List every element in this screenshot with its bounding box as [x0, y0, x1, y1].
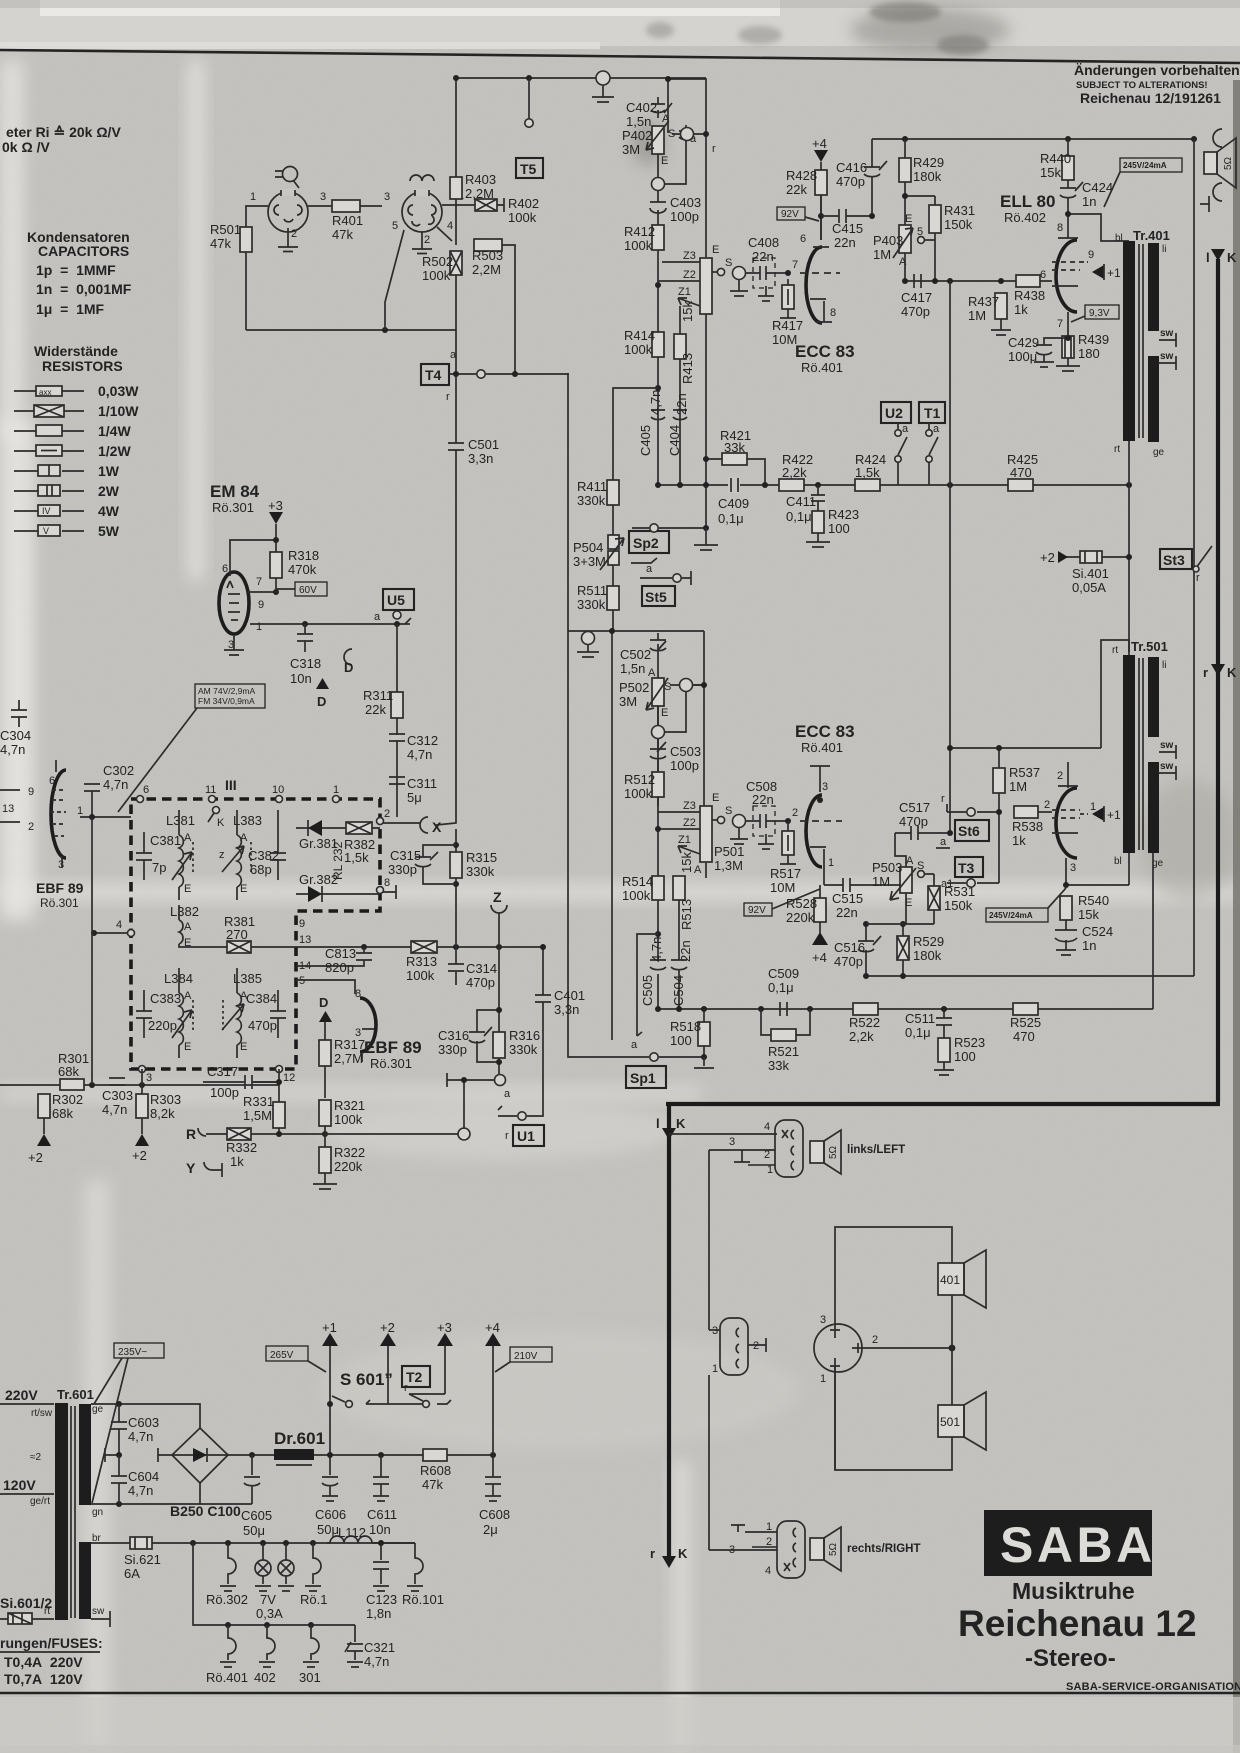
wire R411 top [613, 388, 658, 480]
svg-text:A: A [648, 667, 656, 679]
info box AM/FM [118, 684, 265, 812]
wire bracket a [637, 934, 658, 1036]
secondary bar lower [1148, 762, 1159, 853]
svg-text:EM 84: EM 84 [210, 482, 260, 501]
potentiometer P402 [646, 122, 668, 154]
wire R421 row [706, 459, 765, 485]
node 4 [94, 932, 127, 934]
capacitor C123 [373, 1543, 389, 1591]
svg-text:330k: 330k [509, 1042, 538, 1057]
svg-text:330p: 330p [388, 862, 417, 877]
svg-text:220k: 220k [786, 910, 815, 925]
svg-text:2: 2 [384, 808, 390, 820]
wire socket pin5 diagonal [385, 230, 404, 330]
svg-text:T2: T2 [406, 1369, 423, 1385]
wire x92 down [91, 817, 93, 1085]
connector Y [186, 1160, 222, 1177]
svg-text:100k: 100k [622, 888, 651, 903]
svg-text:1W: 1W [98, 463, 120, 479]
svg-text:rt: rt [1112, 645, 1118, 656]
svg-text:3M: 3M [622, 142, 640, 157]
wire R412 to switch area [657, 250, 659, 340]
wire gn row [91, 1482, 252, 1504]
speaker output top right [1200, 129, 1236, 212]
legend: resistor 4W [14, 503, 120, 519]
pentode ELL80b arc [1056, 788, 1077, 858]
trimmer cap second [679, 125, 693, 143]
svg-text:Dr.601: Dr.601 [274, 1429, 325, 1448]
svg-text:Reichenau 12/191261: Reichenau 12/191261 [1080, 90, 1221, 106]
svg-text:2: 2 [291, 228, 297, 240]
capacitor C302 [84, 784, 100, 817]
svg-text:FM 34V/0,9mA: FM 34V/0,9mA [198, 696, 255, 706]
svg-text:D: D [319, 995, 328, 1010]
svg-text:120V: 120V [3, 1477, 36, 1493]
wire row y976 [866, 975, 1194, 977]
svg-text:AM 74V/2,9mA: AM 74V/2,9mA [198, 686, 255, 696]
label box Sp2 [629, 531, 669, 553]
svg-text:C611: C611 [367, 1507, 397, 1522]
resistor R502 [450, 251, 462, 275]
svg-text:Rö.301: Rö.301 [40, 896, 79, 910]
svg-text:1: 1 [712, 1363, 718, 1375]
svg-text:C411: C411 [786, 494, 816, 509]
svg-text:P503: P503 [872, 860, 902, 875]
voltage box 235V~ [92, 1343, 164, 1503]
wire pin4 to junction [437, 227, 452, 241]
svg-text:r: r [446, 391, 450, 403]
chassis ground at socket Bu501 pin2 [278, 228, 298, 252]
svg-text:rechts/RIGHT: rechts/RIGHT [847, 1543, 921, 1555]
resistor R518 [698, 1022, 710, 1046]
capacitor C315 [415, 845, 456, 884]
svg-text:1n: 1n [1082, 938, 1096, 953]
svg-text:820p: 820p [325, 960, 354, 975]
supply arrow +1 [322, 1320, 338, 1458]
resistor R413 [674, 334, 686, 359]
svg-text:D: D [344, 660, 353, 675]
svg-text:Tr.501: Tr.501 [1131, 639, 1168, 654]
svg-text:+4: +4 [812, 950, 827, 965]
svg-text:ge/rt: ge/rt [30, 1496, 50, 1507]
svg-text:bl: bl [1114, 856, 1122, 867]
svg-text:links/LEFT: links/LEFT [847, 1144, 905, 1156]
svg-text:C383: C383 [150, 991, 181, 1006]
svg-text:470k: 470k [288, 562, 317, 577]
svg-text:III: III [225, 777, 237, 793]
svg-text:68k: 68k [58, 1064, 79, 1079]
svg-text:E: E [661, 155, 668, 167]
svg-text:1p = 1MMF: 1p = 1MMF [36, 262, 116, 278]
wire row y924 [866, 923, 906, 925]
svg-text:5Ω: 5Ω [828, 1145, 839, 1159]
connector X [420, 817, 442, 835]
wire y748 plate feed [950, 747, 1101, 749]
heater 402 [259, 1625, 275, 1667]
svg-text:1: 1 [250, 191, 256, 203]
potentiometer P403 [893, 225, 913, 258]
svg-text:+3: +3 [268, 498, 283, 513]
svg-text:S: S [725, 805, 732, 817]
capacitor C411 [811, 485, 826, 511]
resistor R317 [319, 1040, 331, 1066]
switch pole 2 [388, 1346, 451, 1407]
switch contact T1 [926, 423, 940, 485]
svg-text:1k: 1k [1012, 833, 1026, 848]
voltage box 245V/24mA [986, 888, 1066, 922]
svg-text:47k: 47k [210, 236, 231, 251]
svg-text:+1: +1 [1107, 808, 1121, 822]
svg-text:235V~: 235V~ [118, 1347, 147, 1358]
capacitor C316 [469, 1010, 499, 1062]
svg-text:Rö.301: Rö.301 [370, 1056, 412, 1071]
svg-text:100μ: 100μ [1008, 349, 1037, 364]
secondary bar lower [1148, 356, 1159, 442]
svg-text:100k: 100k [422, 268, 451, 283]
resistor R428 [815, 170, 827, 195]
svg-text:rt: rt [1114, 444, 1120, 455]
top wire with ground terminal [456, 77, 706, 79]
label box T5 [516, 158, 543, 178]
fuse Si.621 [130, 1537, 152, 1549]
svg-text:sw: sw [1160, 740, 1174, 751]
capacitor C405 [638, 390, 665, 456]
svg-text:C415: C415 [832, 221, 863, 236]
svg-text:sw: sw [92, 1606, 105, 1617]
svg-text:470p: 470p [899, 814, 928, 829]
svg-text:6: 6 [1040, 269, 1046, 281]
svg-text:+3: +3 [437, 1320, 452, 1335]
capacitor C501 [448, 443, 464, 450]
svg-text:R511: R511 [577, 583, 607, 598]
legend: resistor 5W [14, 523, 120, 539]
wire R316 vertical [498, 947, 500, 1074]
svg-text:C384: C384 [246, 991, 277, 1006]
wire pin2 [752, 1546, 777, 1548]
svg-text:401: 401 [940, 1273, 960, 1287]
legend: resistor 1W [14, 463, 120, 479]
svg-text:P502: P502 [619, 680, 649, 695]
svg-text:R313: R313 [406, 954, 437, 969]
wire pin1 row [250, 623, 410, 625]
svg-text:ECC 83: ECC 83 [795, 342, 855, 361]
terminal U5 [393, 611, 401, 619]
svg-text:C302: C302 [103, 763, 134, 778]
heater Rö.401 [220, 1625, 236, 1667]
sw tap lower [1159, 761, 1176, 780]
svg-text:EBF 89: EBF 89 [36, 880, 84, 896]
svg-text:sw: sw [1160, 761, 1174, 772]
top border line [0, 50, 1240, 63]
svg-text:6: 6 [49, 775, 55, 787]
heater Rö.1 [305, 1543, 321, 1591]
wiper S [712, 805, 732, 824]
svg-text:ge: ge [92, 1404, 104, 1415]
svg-text:3: 3 [146, 1072, 152, 1084]
svg-text:C604: C604 [128, 1469, 159, 1484]
resistor R311 [391, 692, 403, 718]
wire pin1 bar [731, 1525, 777, 1532]
wire R401 to socket Bu402 [360, 205, 382, 207]
legend: resistor 0.03W [14, 383, 139, 399]
supply arrow +4 [812, 136, 828, 216]
resistor R512 [652, 772, 664, 797]
label box U5 [383, 589, 414, 610]
resistor R528 [814, 898, 826, 922]
contact Z2 [658, 280, 700, 282]
svg-text:R525: R525 [1010, 1015, 1041, 1030]
svg-text:E: E [661, 707, 668, 719]
internal grids [1052, 810, 1080, 818]
svg-text:Si.621: Si.621 [124, 1552, 161, 1567]
bus wire y330 [246, 329, 456, 331]
svg-text:22n: 22n [752, 792, 774, 807]
wire pin1 to R402 [442, 204, 475, 206]
lamp 7V [255, 1543, 271, 1591]
diode Gr.382 [296, 886, 340, 902]
svg-text:10M: 10M [772, 332, 797, 347]
svg-text:22n: 22n [836, 905, 858, 920]
svg-text:C605: C605 [241, 1508, 272, 1523]
svg-text:4W: 4W [98, 503, 120, 519]
svg-text:Z1: Z1 [678, 834, 691, 846]
wire plate row [820, 195, 822, 240]
wiper terminal circle P502 [670, 679, 707, 692]
svg-text:U2: U2 [885, 405, 903, 421]
resistor R425 [1008, 479, 1033, 491]
svg-text:2: 2 [424, 234, 430, 246]
svg-text:r: r [650, 1546, 655, 1561]
ground terminal circle [592, 71, 614, 102]
svg-text:R537: R537 [1009, 765, 1040, 780]
node 2 [377, 818, 384, 825]
potentiometer P502 [646, 678, 668, 710]
IF block III dashed outline [131, 799, 380, 1069]
svg-text:13: 13 [299, 934, 311, 946]
svg-text:8: 8 [355, 988, 361, 1000]
capacitor C381 [136, 832, 152, 880]
svg-text:C314: C314 [466, 961, 497, 976]
node l K [656, 1116, 686, 1140]
main B+ wire [314, 1454, 493, 1456]
svg-text:SABA-SERVICE-ORGANISATION: SABA-SERVICE-ORGANISATION [1066, 1681, 1240, 1693]
svg-text:22n: 22n [752, 249, 774, 264]
svg-text:a1: a1 [941, 878, 953, 890]
svg-text:1M: 1M [872, 874, 890, 889]
wire pin3 with ground [709, 1150, 775, 1162]
svg-text:V: V [43, 526, 49, 536]
svg-text:Z2: Z2 [683, 817, 696, 829]
svg-text:13: 13 [2, 803, 14, 815]
svg-text:7: 7 [1057, 318, 1063, 330]
heavy bus right [1216, 259, 1220, 1102]
sw stub [91, 1611, 110, 1627]
wire top to P402 block [668, 79, 706, 258]
svg-text:R411: R411 [577, 479, 607, 494]
resistor R525 [1013, 1003, 1038, 1015]
capacitor C524 [1055, 920, 1077, 955]
svg-text:R428: R428 [786, 168, 817, 183]
core lines [1139, 658, 1143, 850]
svg-text:6A: 6A [124, 1566, 140, 1581]
voltage box 92V [777, 207, 819, 221]
svg-text:P403: P403 [873, 233, 903, 248]
pentode ELL80a arc [1056, 240, 1077, 312]
svg-text:0k Ω /V: 0k Ω /V [2, 139, 50, 155]
sw tap lower [1159, 351, 1176, 370]
svg-text:11: 11 [205, 784, 216, 796]
svg-text:0,03W: 0,03W [98, 383, 139, 399]
pin 8 cathode [810, 299, 832, 322]
plug contacts [736, 1328, 739, 1368]
svg-text:1/2W: 1/2W [98, 443, 131, 459]
internal grids [1052, 262, 1080, 270]
legend: resistor 1/2W [14, 443, 131, 459]
svg-text:L112: L112 [338, 1525, 366, 1540]
resistor R522 [853, 1003, 878, 1015]
arrow D2 [319, 995, 332, 1022]
capacitor C511 [936, 1009, 952, 1038]
wire ge row [91, 1404, 200, 1428]
anode wire pin6 [813, 216, 829, 247]
svg-text:C321: C321 [364, 1640, 395, 1655]
svg-text:C409: C409 [718, 496, 749, 511]
resistor R315 [450, 852, 462, 878]
svg-text:100: 100 [670, 1033, 692, 1048]
wire down to T5 [528, 78, 530, 118]
capacitor C502 [650, 633, 666, 651]
svg-text:0,1μ: 0,1μ [905, 1025, 931, 1040]
svg-text:C311: C311 [407, 776, 437, 791]
svg-text:C524: C524 [1082, 924, 1113, 939]
svg-text:S: S [917, 860, 924, 872]
svg-text:2,2k: 2,2k [782, 465, 807, 480]
svg-text:C315: C315 [390, 848, 421, 863]
triode ECC83b arc [806, 795, 822, 867]
capacitor C303 [109, 1078, 125, 1085]
resistor R331 [273, 1102, 285, 1128]
pin 7 cathode [1067, 312, 1069, 338]
coupling terminal circle [730, 267, 748, 297]
svg-text:R514: R514 [622, 874, 653, 889]
svg-text:330p: 330p [438, 1042, 467, 1057]
svg-text:R414: R414 [624, 328, 655, 343]
svg-text:3: 3 [384, 191, 390, 203]
wire pin3 [709, 1329, 720, 1331]
coil L381 [166, 810, 195, 900]
capacitor C417 [914, 274, 921, 288]
svg-text:CAPACITORS: CAPACITORS [38, 243, 129, 259]
voltage box 92V [744, 889, 820, 916]
wire top bus y139 [872, 138, 1194, 140]
secondary bar upper [1148, 243, 1159, 331]
DIN plug right channel [777, 1521, 805, 1578]
supply arrow +3 [268, 498, 283, 552]
svg-text:5Ω: 5Ω [1223, 156, 1234, 170]
resistor R440 [1062, 156, 1074, 180]
legend: resistor 1/4W [14, 423, 131, 439]
coil L385 [222, 968, 262, 1058]
svg-text:2W: 2W [98, 483, 120, 499]
wire x950 vertical [949, 281, 951, 833]
svg-text:C312: C312 [407, 733, 438, 748]
lower terminal circle P402 [652, 143, 687, 191]
svg-text:C813: C813 [325, 946, 356, 961]
svg-text:C416: C416 [836, 160, 867, 175]
svg-text:R440: R440 [1040, 151, 1071, 166]
svg-text:220p: 220p [148, 1018, 177, 1033]
svg-text:22n: 22n [674, 393, 689, 415]
wire socket pin1 to R501 [246, 206, 268, 227]
svg-text:R403: R403 [465, 172, 496, 187]
svg-text:R522: R522 [849, 1015, 880, 1030]
svg-text:470p: 470p [834, 954, 863, 969]
svg-text:D: D [317, 694, 326, 709]
svg-text:r: r [1203, 665, 1208, 680]
svg-text:C381: C381 [150, 833, 181, 848]
svg-text:2: 2 [792, 807, 798, 819]
svg-text:E: E [184, 1041, 191, 1053]
svg-text:50μ: 50μ [317, 1522, 339, 1537]
secondary bar lower [79, 1542, 91, 1619]
wire pin2 stub [748, 1164, 775, 1166]
svg-text:B250 C100: B250 C100 [170, 1503, 241, 1519]
wire R331 junction row [276, 1131, 282, 1137]
resistor R531 [928, 886, 940, 910]
svg-text:92V: 92V [781, 209, 799, 220]
pin 2 right [852, 1334, 952, 1353]
svg-text:r: r [1196, 572, 1200, 584]
svg-text:3: 3 [712, 1325, 718, 1337]
capacitor C384 [270, 990, 286, 1038]
svg-text:2: 2 [1057, 770, 1063, 782]
wire P503 bottom [906, 893, 934, 924]
wire plate to transformer [1068, 214, 1129, 241]
resistor R423 [812, 511, 824, 533]
heater wire br row [91, 1542, 415, 1544]
terminal a EBF out [447, 1073, 511, 1129]
svg-text:Si.401: Si.401 [1072, 566, 1109, 581]
svg-text:2,7M: 2,7M [334, 1051, 363, 1066]
svg-text:C608: C608 [479, 1507, 510, 1522]
legend: capacitor rows [36, 262, 132, 317]
svg-text:rt/sw: rt/sw [31, 1408, 53, 1419]
svg-text:Widerstände: Widerstände [34, 343, 118, 359]
resistor R437 [995, 293, 1007, 319]
capacitor C504 [671, 900, 687, 1009]
svg-text:C511: C511 [905, 1011, 935, 1026]
svg-text:C382: C382 [248, 848, 279, 863]
svg-text:T1: T1 [924, 405, 941, 421]
svg-text:eter Ri ≙ 20k Ω/V: eter Ri ≙ 20k Ω/V [6, 124, 121, 140]
wire R303 top [141, 1069, 143, 1094]
resistor R529 [897, 936, 909, 960]
svg-text:470p: 470p [466, 975, 495, 990]
svg-text:C503: C503 [670, 744, 701, 759]
resistor R411 [607, 480, 619, 505]
resistor R439 [1062, 336, 1074, 358]
fuse Si.601/2 [0, 1595, 54, 1624]
svg-text:6: 6 [143, 784, 149, 796]
svg-text:L381: L381 [166, 813, 195, 828]
resistor R431 [929, 205, 941, 233]
svg-text:270: 270 [226, 927, 248, 942]
capacitor C304 stub [11, 700, 27, 727]
wire 120V [0, 1493, 54, 1495]
svg-text:Rö.101: Rö.101 [402, 1592, 444, 1607]
label box T3 [955, 857, 983, 877]
resistor R382 [340, 822, 380, 834]
